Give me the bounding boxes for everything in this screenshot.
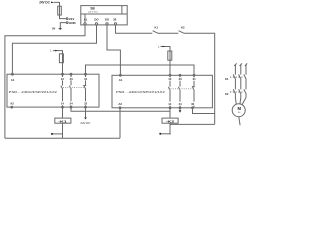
svg-text:14: 14 xyxy=(168,102,172,106)
svg-text:K2: K2 xyxy=(181,26,185,30)
svg-text:0V: 0V xyxy=(52,27,56,31)
svg-text:A1: A1 xyxy=(11,78,15,82)
svg-text:23: 23 xyxy=(179,77,183,81)
svg-text:A1: A1 xyxy=(119,78,123,82)
svg-text:13: 13 xyxy=(61,77,65,81)
svg-text:24: 24 xyxy=(70,102,74,106)
svg-text:A1: A1 xyxy=(84,18,88,22)
svg-text:31: 31 xyxy=(193,77,197,81)
svg-text:24 V DC: 24 V DC xyxy=(88,11,98,13)
svg-text:-K2: -K2 xyxy=(166,119,175,123)
svg-text:PSR...-24DC/FSP/2X1/1X2: PSR...-24DC/FSP/2X1/1X2 xyxy=(116,90,165,94)
svg-text:23: 23 xyxy=(70,77,74,81)
svg-text:24: 24 xyxy=(179,102,183,106)
svg-text:24V DC: 24V DC xyxy=(39,1,50,5)
svg-text:32: 32 xyxy=(84,102,88,106)
svg-text:13: 13 xyxy=(168,77,172,81)
svg-text:K1: K1 xyxy=(155,26,159,30)
svg-text:32: 32 xyxy=(191,102,195,106)
svg-text:GND: GND xyxy=(69,21,77,25)
svg-text:24V DC: 24V DC xyxy=(80,121,91,125)
svg-text:SB: SB xyxy=(90,6,95,10)
svg-text:A2: A2 xyxy=(10,102,14,106)
svg-text:14: 14 xyxy=(61,102,65,106)
svg-text:K2: K2 xyxy=(225,92,229,96)
svg-text:31: 31 xyxy=(84,77,88,81)
svg-text:K1: K1 xyxy=(225,77,229,81)
svg-text:A2: A2 xyxy=(118,102,122,106)
svg-text:PSR...-24DC/FSP/2X1/1X2: PSR...-24DC/FSP/2X1/1X2 xyxy=(9,90,58,94)
svg-text:38: 38 xyxy=(113,18,117,22)
svg-text:-K1: -K1 xyxy=(58,119,67,123)
svg-text:M: M xyxy=(238,106,242,111)
